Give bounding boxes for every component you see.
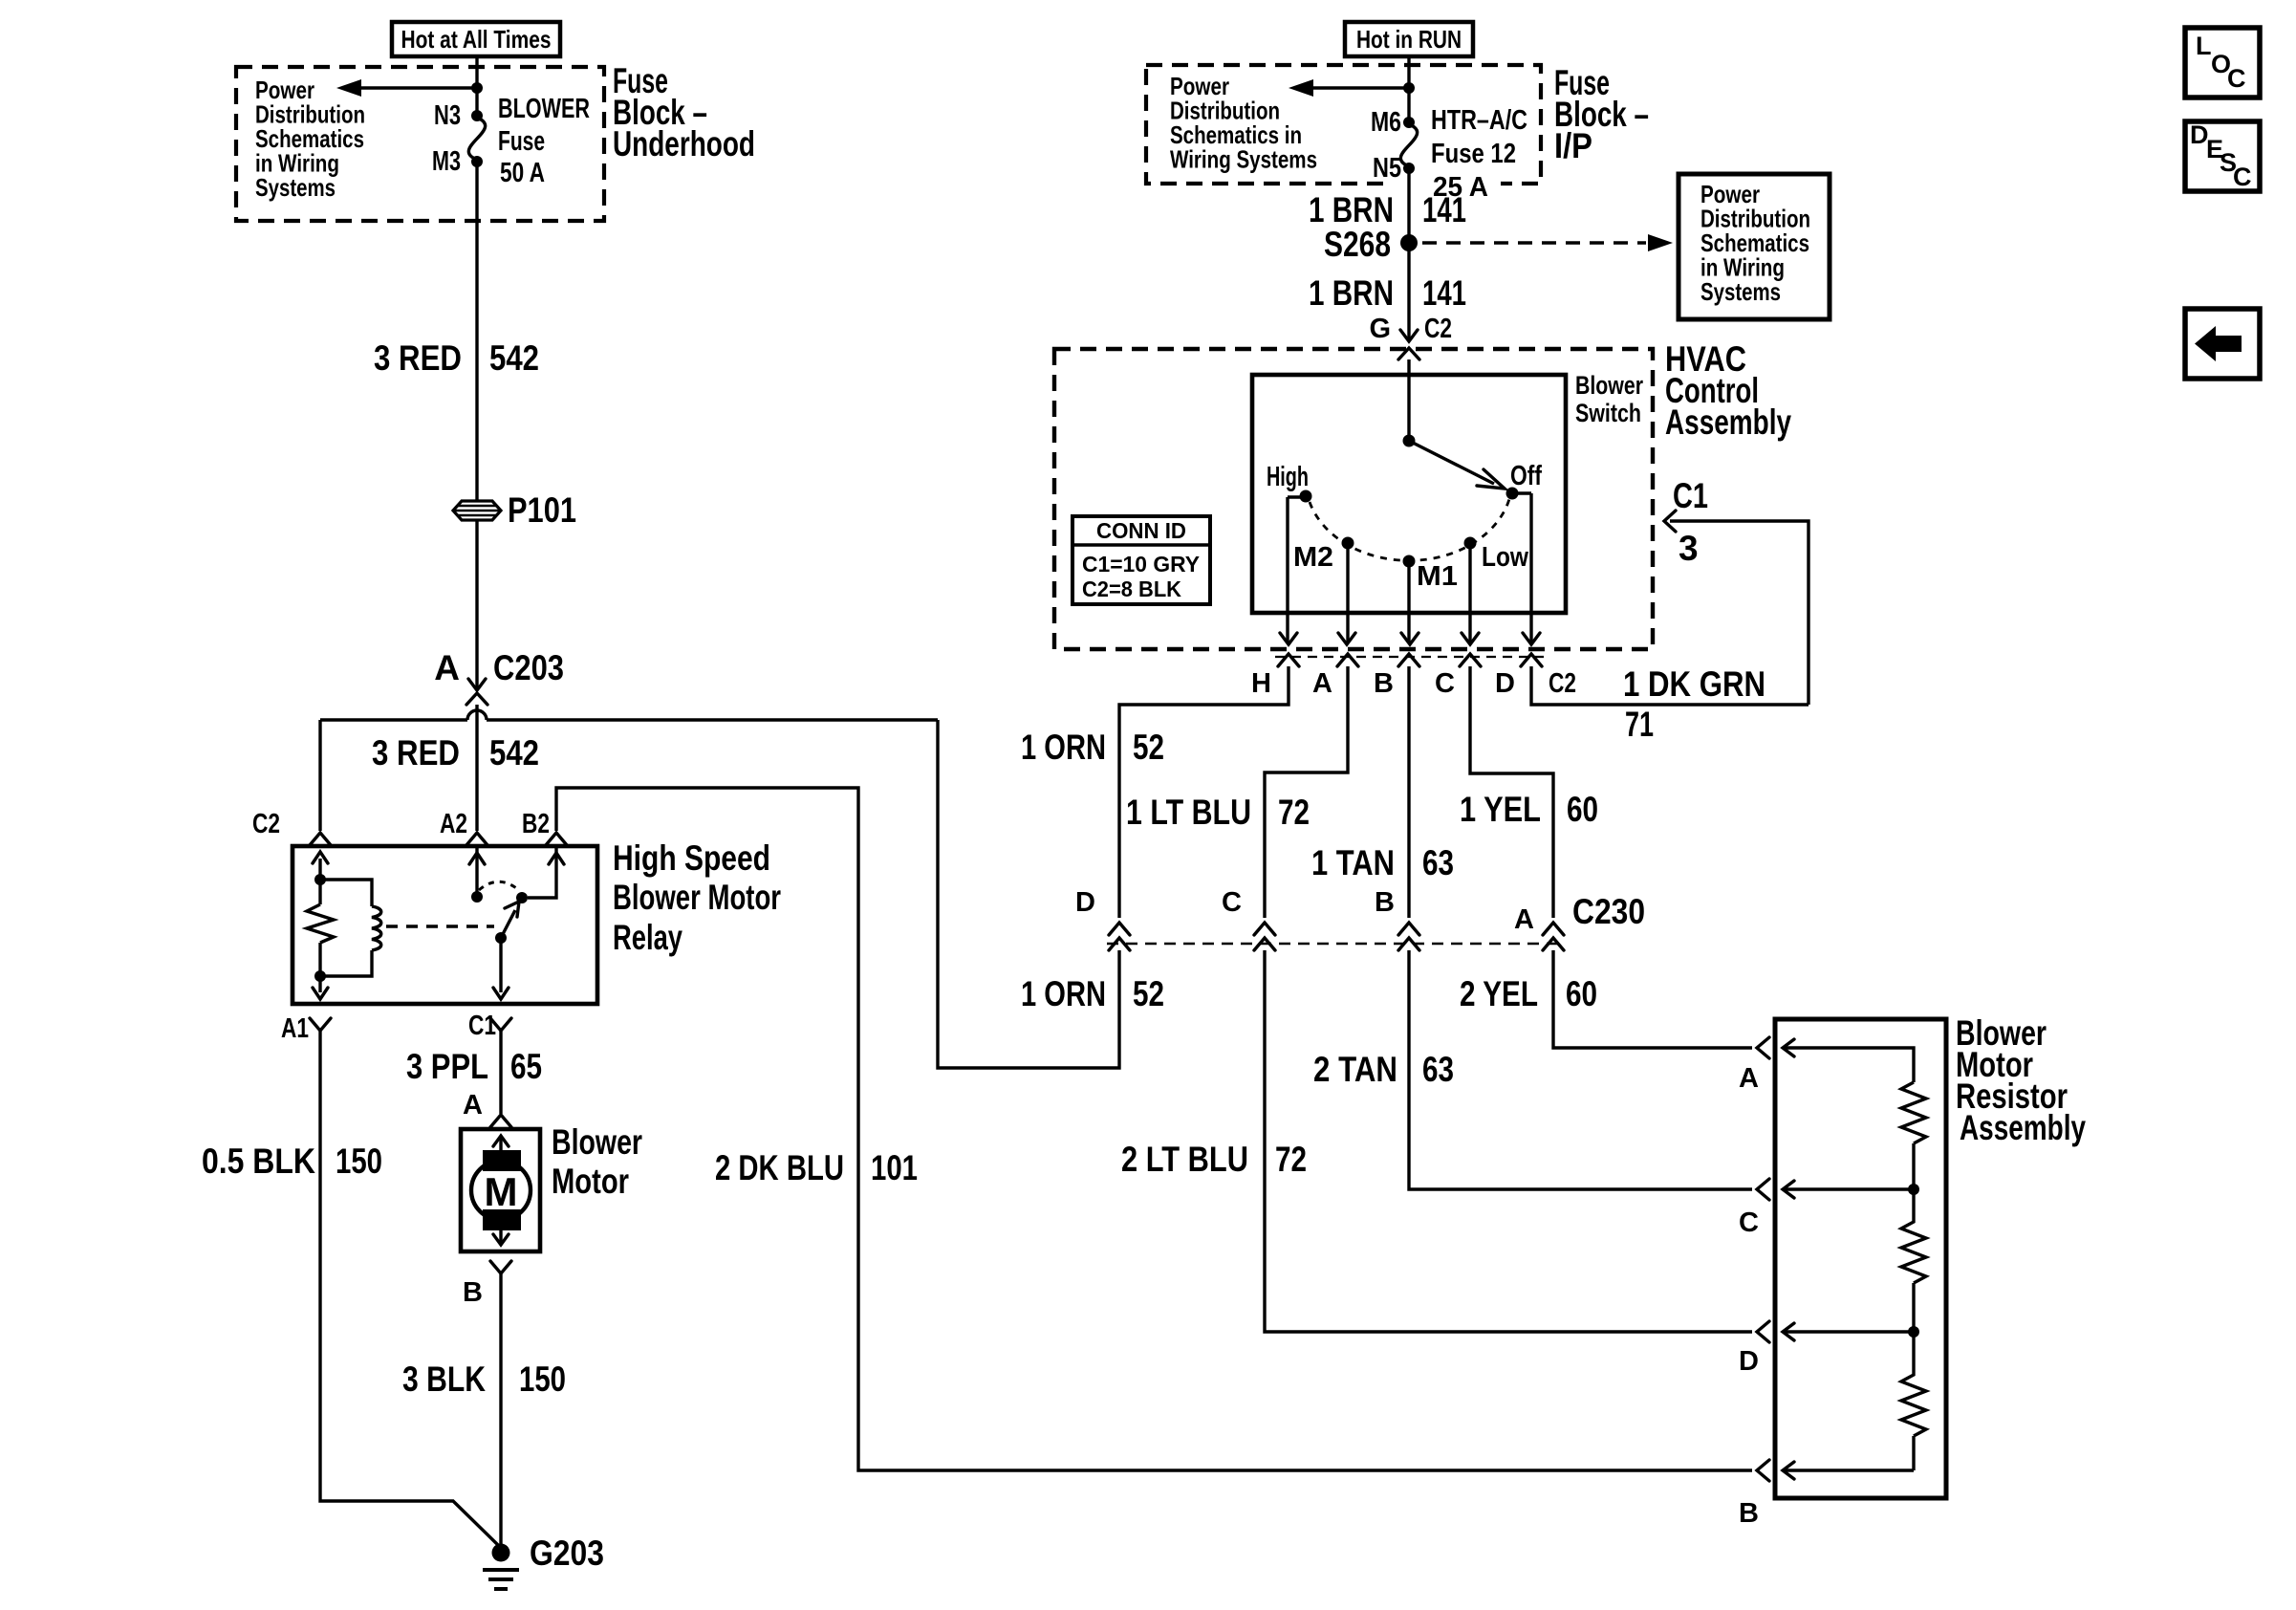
svg-text:542: 542 [489, 733, 539, 772]
wire 1 DK GRN 71 [1531, 521, 1809, 705]
svg-text:B: B [1374, 668, 1394, 699]
C230 chevrons pin C [1254, 923, 1275, 950]
svg-text:Off: Off [1510, 461, 1542, 491]
svg-text:2 TAN: 2 TAN [1313, 1050, 1397, 1089]
svg-text:Assembly: Assembly [1665, 402, 1791, 442]
relay B2 contact wire [528, 846, 556, 898]
svg-text:1 LT BLU: 1 LT BLU [1126, 793, 1251, 832]
wire 1 ORN 52 upper [1119, 666, 1289, 918]
grommet P101 [453, 501, 501, 520]
resistor pin B [1757, 1460, 1769, 1481]
svg-text:Systems: Systems [1700, 277, 1781, 306]
svg-text:2 LT BLU: 2 LT BLU [1121, 1140, 1248, 1179]
junction dot [1403, 82, 1415, 94]
svg-text:C: C [1435, 668, 1455, 699]
svg-text:542: 542 [489, 338, 539, 378]
svg-text:0.5 BLK: 0.5 BLK [202, 1142, 315, 1181]
svg-text:101: 101 [871, 1148, 918, 1187]
relay dashed actuator link [386, 925, 494, 927]
wire 1 ORN from relay C2 right with hop over red wire [320, 710, 938, 720]
svg-text:B: B [1375, 887, 1395, 918]
svg-text:141: 141 [1422, 190, 1466, 229]
svg-text:High Speed: High Speed [613, 838, 770, 878]
svg-text:50 A: 50 A [500, 158, 545, 188]
internal feed B [1784, 1469, 1914, 1471]
svg-text:3 PPL: 3 PPL [406, 1047, 488, 1086]
svg-text:2 YEL: 2 YEL [1460, 974, 1538, 1013]
svg-text:72: 72 [1275, 1140, 1307, 1179]
wire 1 BRN 141 upper [1407, 168, 1410, 340]
connector C230 dashed row [1107, 943, 1566, 946]
wire 0.5 BLK 150 [320, 1031, 500, 1547]
internal feed A [1784, 1048, 1914, 1082]
switch arm arrow to Off [1409, 441, 1494, 484]
svg-text:60: 60 [1566, 974, 1597, 1013]
conn id table [1072, 516, 1210, 604]
svg-text:1 DK GRN: 1 DK GRN [1623, 664, 1765, 704]
wire C203 to relay A2 [475, 705, 478, 831]
svg-text:C230: C230 [1572, 892, 1645, 931]
svg-text:3 RED: 3 RED [374, 338, 462, 378]
pin chevrons below border [1278, 654, 1299, 666]
switch pivot dot [1403, 435, 1416, 447]
svg-text:B: B [463, 1277, 483, 1308]
svg-text:D: D [1739, 1346, 1759, 1377]
icon DESC [2185, 121, 2260, 191]
svg-text:150: 150 [336, 1142, 382, 1181]
svg-text:1 YEL: 1 YEL [1460, 790, 1541, 829]
wire 2 TAN 63 [1409, 950, 1752, 1189]
wire 3 BLK 150 [499, 1273, 502, 1546]
svg-text:D: D [1075, 887, 1095, 918]
white patch under 25 A [1391, 170, 1501, 195]
svg-text:1 TAN: 1 TAN [1311, 843, 1395, 882]
ground G203 [492, 1544, 510, 1562]
svg-text:2 DK BLU: 2 DK BLU [715, 1148, 844, 1187]
svg-text:1 BRN: 1 BRN [1309, 190, 1394, 229]
switch feed wire [1407, 359, 1410, 441]
arrow to power distribution [358, 86, 475, 89]
svg-text:Blower: Blower [1575, 371, 1643, 400]
svg-text:52: 52 [1133, 728, 1164, 767]
motor arrows [499, 1138, 502, 1161]
svg-text:Blower Motor: Blower Motor [613, 878, 781, 917]
resistor pin A [1757, 1037, 1769, 1058]
fuse HTR-A/C Fuse 12 25 A [1400, 124, 1417, 166]
svg-text:A2: A2 [440, 809, 467, 839]
relay arrow down at A1 [313, 988, 328, 999]
svg-text:G: G [1369, 314, 1391, 344]
svg-text:B: B [1739, 1498, 1759, 1529]
svg-text:72: 72 [1278, 793, 1310, 832]
svg-text:C1: C1 [468, 1011, 496, 1041]
svg-text:BLOWER: BLOWER [498, 94, 590, 124]
relay B2 contact dot [516, 892, 528, 903]
junction dot D [1908, 1326, 1919, 1338]
wire 3 PPL 65 [499, 1031, 502, 1114]
junction dot [471, 82, 483, 94]
svg-text:C1=10 GRY: C1=10 GRY [1082, 552, 1200, 577]
svg-text:G203: G203 [530, 1534, 604, 1573]
svg-text:N3: N3 [434, 100, 461, 131]
svg-text:C2: C2 [1424, 314, 1452, 344]
svg-text:A: A [1739, 1063, 1759, 1094]
relay A2 contact wire [475, 846, 478, 897]
svg-text:L: L [2196, 32, 2212, 60]
HVAC control assembly dashed box [1054, 349, 1653, 649]
flag box "Hot at All Times" [392, 22, 560, 56]
svg-text:3 RED: 3 RED [372, 733, 460, 772]
svg-text:Hot at All Times: Hot at All Times [401, 25, 552, 54]
svg-text:Relay: Relay [613, 918, 682, 957]
relay dashed contact arc [479, 881, 520, 891]
fuse block I/P dashed box [1146, 65, 1541, 184]
relay box High Speed Blower Motor Relay [292, 846, 597, 1004]
svg-text:3 BLK: 3 BLK [402, 1360, 486, 1399]
svg-text:A1: A1 [281, 1013, 309, 1044]
internal feed D [1784, 1330, 1914, 1333]
dashed reference arrow from S268 [1422, 241, 1646, 245]
relay arrow up at C2 [313, 852, 328, 863]
svg-text:S268: S268 [1324, 225, 1391, 264]
switch dashed arc [1310, 499, 1509, 560]
wire 2 LT BLU 72 [1265, 950, 1752, 1332]
svg-text:C: C [1222, 887, 1242, 918]
svg-text:71: 71 [1625, 705, 1654, 744]
resistor element 2 [1901, 1189, 1926, 1332]
wire 1 TAN 63 [1407, 666, 1410, 918]
svg-text:Wiring Systems: Wiring Systems [1170, 145, 1317, 174]
svg-text:Fuse 12: Fuse 12 [1431, 139, 1516, 169]
svg-text:1 BRN: 1 BRN [1309, 273, 1394, 313]
svg-text:1 ORN: 1 ORN [1021, 974, 1106, 1013]
blower switch box [1252, 375, 1566, 613]
relay coil [372, 906, 381, 950]
resistor pin C [1757, 1179, 1769, 1200]
relay bottom junction dot [314, 970, 326, 982]
C230 chevrons pin B [1398, 923, 1419, 950]
connector C2 dashed row [1275, 656, 1544, 658]
svg-text:I/P: I/P [1554, 126, 1592, 165]
icon LOC [2185, 28, 2260, 98]
svg-text:C2=8 BLK: C2=8 BLK [1082, 577, 1181, 601]
svg-text:P101: P101 [508, 490, 576, 530]
svg-text:H: H [1251, 668, 1271, 699]
svg-text:Assembly: Assembly [1960, 1108, 2086, 1147]
svg-text:A: A [1312, 668, 1332, 699]
wire from Hot at All Times down [475, 56, 478, 116]
svg-text:Fuse: Fuse [498, 126, 545, 157]
svg-text:CONN ID: CONN ID [1096, 518, 1186, 543]
svg-text:HTR–A/C: HTR–A/C [1431, 105, 1527, 136]
motor circle M [471, 1161, 531, 1220]
C230 chevrons pin A [1543, 923, 1564, 950]
relay resistor [307, 880, 334, 976]
svg-text:Systems: Systems [255, 173, 336, 202]
svg-text:65: 65 [510, 1047, 542, 1086]
wire 1 ORN 52 lower [938, 720, 1119, 1068]
wire 2 DK BLU from relay B2 [556, 788, 1752, 1470]
svg-text:C: C [1739, 1207, 1759, 1238]
svg-text:Blower: Blower [552, 1122, 642, 1162]
svg-text:60: 60 [1567, 790, 1598, 829]
arrow to power distribution [1310, 86, 1407, 89]
svg-text:C: C [2233, 163, 2252, 191]
wire below P101 [475, 520, 478, 689]
fuse block underhood dashed box [236, 67, 604, 221]
svg-text:1 ORN: 1 ORN [1021, 728, 1106, 767]
wire C2 drop [318, 720, 321, 831]
svg-text:141: 141 [1422, 273, 1466, 313]
svg-text:M: M [485, 1169, 518, 1214]
svg-text:52: 52 [1133, 974, 1164, 1013]
svg-text:Hot in RUN: Hot in RUN [1356, 25, 1462, 54]
relay A2 contact dot [471, 891, 483, 903]
svg-text:Underhood: Underhood [613, 124, 755, 163]
svg-text:C1: C1 [1673, 476, 1708, 515]
blower motor box [461, 1129, 540, 1251]
junction dot C [1908, 1184, 1919, 1195]
resistor element 1 [1901, 1082, 1926, 1189]
icon back arrow [2185, 309, 2260, 379]
svg-text:63: 63 [1422, 843, 1454, 882]
switch output wires [1288, 497, 1306, 643]
svg-text:C2: C2 [252, 809, 280, 839]
svg-text:C203: C203 [493, 648, 564, 687]
relay common wire down [499, 938, 502, 992]
flag box "Hot in RUN" [1345, 22, 1473, 56]
resistor element 3 [1901, 1332, 1926, 1470]
wire 1 LT BLU 72 [1265, 666, 1348, 918]
svg-text:A: A [463, 1090, 483, 1120]
svg-text:B2: B2 [522, 809, 550, 839]
svg-text:63: 63 [1422, 1050, 1454, 1089]
fuse BLOWER 50A [468, 118, 485, 160]
internal feed C [1784, 1187, 1914, 1190]
relay top junction dot [314, 874, 326, 885]
relay switch arm [501, 910, 515, 938]
svg-text:Switch: Switch [1575, 399, 1641, 427]
relay coil branch wire [320, 859, 372, 992]
wire below Hot in RUN [1407, 56, 1410, 122]
blower motor resistor assembly box [1775, 1019, 1946, 1498]
svg-text:M3: M3 [432, 146, 461, 177]
svg-text:M6: M6 [1371, 107, 1401, 138]
svg-text:Low: Low [1482, 542, 1528, 573]
svg-text:A: A [1514, 904, 1534, 935]
wire 3 RED 542 [475, 162, 478, 501]
resistor pin D [1757, 1321, 1769, 1342]
svg-text:N5: N5 [1373, 153, 1401, 184]
svg-text:C2: C2 [1549, 668, 1576, 699]
svg-text:A: A [434, 648, 460, 687]
wire 2 YEL 60 [1553, 950, 1752, 1048]
relay switch pivot dot [495, 932, 507, 944]
svg-text:M2: M2 [1293, 542, 1333, 573]
svg-text:C: C [2227, 64, 2246, 93]
svg-text:3: 3 [1679, 529, 1699, 568]
svg-text:M1: M1 [1417, 561, 1458, 592]
reference box Power Distribution Schematics in Wiring Systems [1679, 174, 1830, 319]
svg-text:Motor: Motor [552, 1162, 629, 1201]
switch position dots [1300, 490, 1312, 503]
wire 1 YEL 60 [1470, 666, 1553, 918]
svg-text:D: D [1495, 668, 1515, 699]
svg-text:150: 150 [519, 1360, 566, 1399]
C230 chevrons pin D [1109, 923, 1130, 950]
pin arrows at HVAC border [1280, 633, 1297, 644]
svg-text:High: High [1267, 462, 1309, 492]
